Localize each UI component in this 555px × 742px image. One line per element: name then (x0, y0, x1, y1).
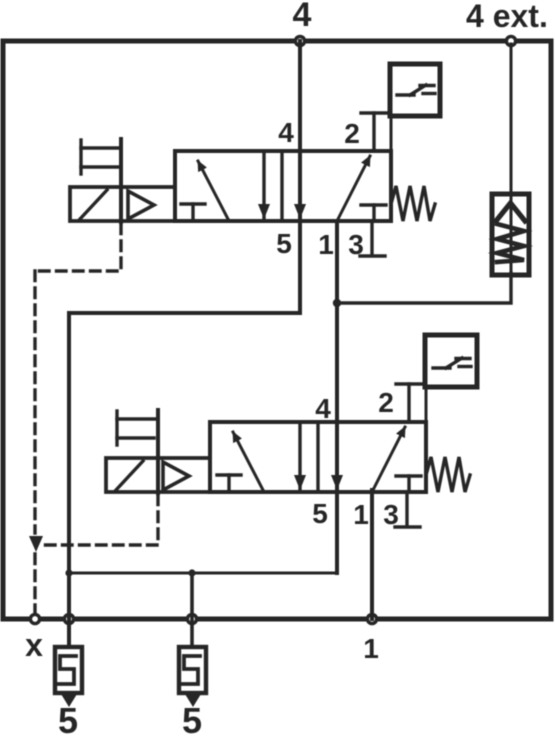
wire: pressure switch S2 drop (425, 388, 428, 422)
svg-text:2: 2 (378, 387, 394, 418)
junction at valve interconnection (333, 299, 341, 307)
svg-text:2: 2 (344, 118, 360, 149)
pilot line valve V1 (dashed) (35, 224, 121, 271)
wire: port 4 supply line down through valve V1 to exhaust bend (69, 41, 300, 646)
wire: 4 ext. line lower + branch to valve V2 port 4 (337, 273, 511, 303)
silencer M2 baffle (182, 656, 200, 684)
valve V2 return spring (426, 457, 470, 492)
valve V1 left square flow path 1-4 (diagonal arrow) (198, 161, 228, 219)
valve V1 square divider (280, 151, 283, 221)
junction exhaust link at x=192 (188, 569, 195, 576)
valve V1 right square blocked port 3 (361, 203, 386, 206)
svg-text:1: 1 (353, 499, 369, 530)
valve V1 return spring (391, 186, 435, 221)
pressure switch S2 box (425, 335, 477, 387)
valve V2 port 3 plugged stub (405, 492, 408, 525)
node port x (bottom border) (30, 614, 39, 623)
node port 1 (bottom border) (367, 614, 376, 623)
svg-text:5: 5 (276, 228, 292, 259)
pressure switch S1 box (390, 64, 440, 116)
junction exhaust link at x=69 (65, 569, 72, 576)
valve V1 left square blocked port 5 (181, 202, 205, 205)
check valve through line (510, 194, 513, 275)
check valve spring (497, 224, 524, 262)
check valve (4 ext.) body (492, 194, 529, 275)
manual override Z1 stem (119, 139, 123, 222)
valve V2 left square flow path 2-3 (straight down) (298, 422, 301, 492)
svg-text:5: 5 (182, 700, 202, 741)
valve V1 body (5/2 way) (175, 151, 391, 221)
valve V2 right square flow path 1-2 (diagonal arrow) (372, 427, 405, 492)
solenoid Y2 box (106, 458, 210, 492)
node port 4 (top border) (295, 36, 304, 45)
valve V2 body (5/2 way) (210, 422, 426, 492)
valve V1 left square flow path 2-3 (straight down) (262, 151, 265, 221)
wire: pressure switch S1 drop (390, 119, 393, 151)
enclosure border (3, 41, 551, 619)
node port 5b (bottom border) (187, 614, 196, 623)
valve V1 right square flow path 4-5 (straight down, on supply line) (294, 204, 306, 219)
svg-text:3: 3 (383, 499, 399, 530)
manual override Z2 stem (156, 410, 160, 493)
wire: 4 ext. line upper (510, 44, 513, 196)
valve V2 left square flow path 1-4 (diagonal arrow) (233, 432, 263, 490)
svg-text:5: 5 (58, 700, 78, 741)
manual override Z1 (79, 140, 82, 174)
pilot line flow arrowhead (29, 536, 43, 552)
pilot supply line x (dashed vertical) (33, 271, 36, 533)
svg-text:3: 3 (348, 229, 364, 260)
manual override Z2 (115, 411, 118, 445)
svg-text:4 ext.: 4 ext. (466, 0, 548, 34)
check valve poppet chevron (496, 203, 525, 221)
valve V1 right square flow path 1-2 (diagonal arrow) (337, 156, 370, 221)
valve V2 right square blocked port 3 (396, 474, 421, 477)
valve V2 left square blocked port 5 (217, 473, 241, 476)
pressure switch S2 contact symbol (433, 366, 450, 369)
silencer M1 body (55, 647, 82, 693)
svg-text:4: 4 (278, 117, 294, 148)
svg-text:5: 5 (312, 498, 328, 529)
svg-text:4: 4 (315, 393, 331, 424)
silencer M2 body (179, 647, 206, 693)
valve V1 port 3 plugged stub (370, 221, 373, 254)
valve V1 port 2 plugged stub (372, 113, 375, 151)
svg-text:1: 1 (363, 633, 379, 664)
svg-text:4: 4 (293, 0, 312, 34)
solenoid Y2 coil slash (116, 461, 143, 490)
valve V2 right square flow path 4-5 (straight down, on link line) (331, 475, 343, 490)
wire: silencer 2 drop (190, 573, 194, 646)
solenoid Y1 pilot triangle (128, 191, 154, 219)
silencer M2 outlet arrow (185, 694, 201, 707)
valve V2 port 2 plugged stub (407, 384, 410, 422)
wire: common exhaust link line (69, 572, 337, 575)
solenoid Y1 box (70, 187, 175, 221)
pilot line valve V2 (dashed) (40, 495, 158, 545)
node port 5a (bottom border) (64, 614, 73, 623)
solenoid Y1 coil slash (80, 190, 107, 219)
wire: supply 1 riser (370, 490, 374, 619)
valve V2 square divider (316, 422, 319, 492)
svg-text:1: 1 (318, 229, 334, 260)
node port 4 ext. (top border) (506, 36, 515, 45)
silencer M1 outlet arrow (61, 694, 77, 707)
silencer M1 baffle (58, 656, 76, 684)
wire: valve V1 port 1 to valve V2 port 4 / port 5 drop (335, 221, 339, 573)
pressure switch S1 contact symbol (397, 93, 414, 96)
svg-text:x: x (25, 627, 43, 663)
solenoid Y2 pilot triangle (163, 462, 189, 490)
